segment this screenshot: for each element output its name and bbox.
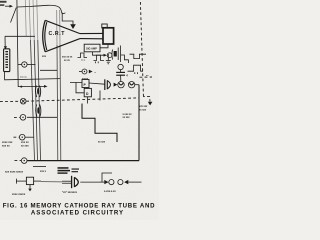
svg-text:xx xxx: xx xxx — [123, 117, 131, 119]
svg-text:xxxx xxxxx: xxxx xxxxx — [12, 193, 26, 196]
svg-text:xxx x: xxx x — [40, 170, 47, 173]
svg-text:C.R.T: C.R.T — [49, 31, 66, 37]
svg-text:xx xx: xx xx — [64, 60, 70, 62]
svg-text:xxx xx: xxx xx — [20, 77, 27, 79]
svg-text:x-xxx xx: x-xxx xx — [123, 114, 133, 116]
svg-text:xxx: xxx — [42, 55, 47, 58]
svg-text:xx xxx: xx xxx — [98, 142, 106, 144]
svg-text:x-xxx-x-xx: x-xxx-x-xx — [104, 190, 116, 193]
svg-text:xxxxx: xxxxx — [82, 78, 89, 80]
svg-text:+|: +| — [126, 74, 128, 77]
svg-text:ASSOCIATED CIRCUITRY: ASSOCIATED CIRCUITRY — [31, 209, 124, 216]
svg-text:xx xxx: xx xxx — [139, 109, 147, 111]
svg-text:xx xxx: xx xxx — [21, 145, 29, 148]
svg-text:xxx xx xx: xxx xx xx — [62, 57, 73, 59]
svg-text:xxx xxx: xxx xxx — [139, 106, 148, 108]
svg-text:xxx xxxx xxxxx: xxx xxxx xxxxx — [5, 171, 24, 174]
svg-text:SIG AMP: SIG AMP — [86, 47, 97, 51]
svg-text:"xx" xxxxxxx: "xx" xxxxxxx — [62, 191, 78, 194]
svg-text:xxx xx: xxx xx — [2, 145, 10, 148]
